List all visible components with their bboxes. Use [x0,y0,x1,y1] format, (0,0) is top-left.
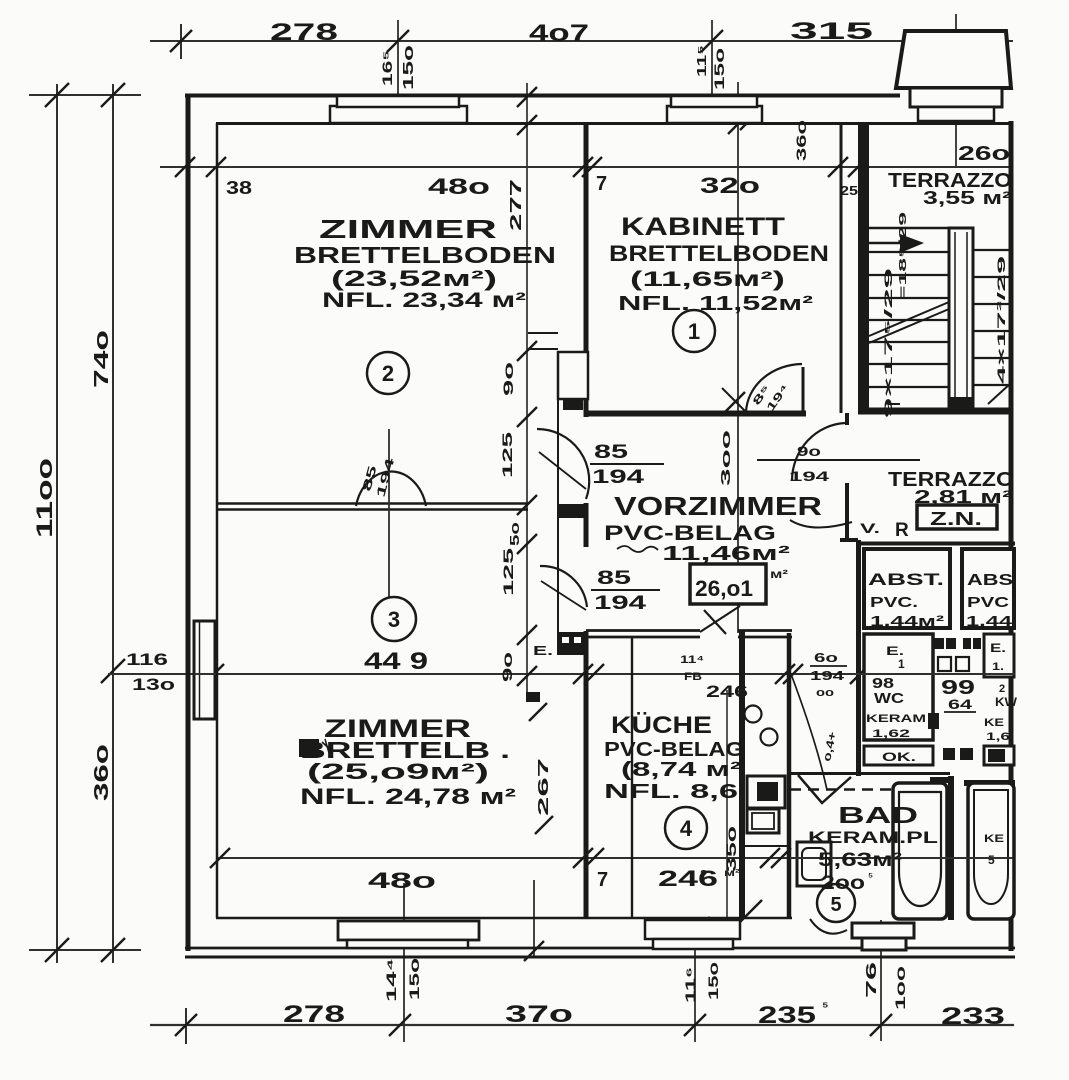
svg-text:PVC-BELAG: PVC-BELAG [604,522,776,545]
svg-text:KERAM.PL: KERAM.PL [808,828,938,847]
svg-text:1,44м²: 1,44м² [870,613,944,630]
svg-text:м²: м² [770,567,788,581]
door arc: kabinett (85/194) [746,364,802,412]
svg-text:5,63м²: 5,63м² [818,850,902,871]
svg-text:26,o1: 26,o1 [695,576,753,601]
room circle 5 [817,884,855,922]
wall: outer right [1009,121,1014,951]
dim line: interior chain y=167 [160,166,1013,168]
bathtub 2 (neighbour) [968,783,1014,919]
chimney base box [910,88,1002,107]
svg-text:2: 2 [700,867,707,882]
svg-text:E.: E. [886,644,904,658]
chimney (bottom) inner box [862,938,906,950]
wall: wc row top y=543.5 [858,542,1015,546]
wall: outer top [185,94,900,98]
washbasin bad [797,842,831,886]
svg-text:26o: 26o [958,143,1010,165]
dim line: top chain [150,40,1013,42]
bathtub 1 [893,783,947,919]
svg-text:11oo: 11oo [32,458,57,538]
svg-text:267: 267 [535,758,552,816]
tick: left inner bottom [85,949,141,951]
svg-text:R: R [895,520,909,541]
line over terrace door y=460 [757,459,920,461]
svg-text:NFL. 11,52м²: NFL. 11,52м² [618,293,814,315]
svg-text:35o: 35o [723,826,739,872]
window W3 (bottom, room4) outer [338,921,479,940]
wall: vorzimmer right x=847 lower [845,483,849,540]
box E2 with blob [984,746,1014,765]
chimney (top) trapezoid [896,31,1011,88]
window W3 inner step [347,940,468,948]
stair bottom equals mark [888,403,900,405]
svg-text:9o: 9o [499,652,515,682]
wall: kueche right x=742 [739,631,745,918]
bad top dashed line [790,788,944,791]
svg-text:64: 64 [948,696,972,712]
svg-text:oo: oo [816,687,834,699]
tick line: bottom window3 centre x=397 [403,883,405,1042]
svg-text:2: 2 [999,683,1005,695]
svg-text:VORZIMMER: VORZIMMER [614,491,822,521]
window W2 (top, kabinett) outer [667,106,762,123]
wall chunks above bad right [930,777,954,783]
door arc: bad small [810,919,847,934]
tick line: top chimney centre x=956 [955,14,957,167]
svg-text:235: 235 [758,1002,816,1029]
wall block 50 (between doors) [557,504,587,518]
svg-text:1,44: 1,44 [966,613,1013,630]
wall: kabinett right inner face x=841 [840,123,843,413]
stair treads right flight [973,249,1011,251]
svg-text:5: 5 [830,894,841,916]
dim line: interior chain y=674 [108,673,1015,675]
svg-text:1: 1 [688,319,700,344]
tick: bottom chain x=186 [185,1008,187,1044]
svg-text:1,6: 1,6 [986,731,1010,743]
wall: inner left line [216,123,219,918]
svg-text:BAD: BAD [838,802,918,828]
svg-text:1,62: 1,62 [872,728,910,740]
svg-text:5o: 5o [507,522,522,546]
tick: left inner middle [101,659,125,683]
stair diagonal right flight [988,383,1011,404]
svg-text:WC: WC [874,690,904,707]
svg-text:11⁴: 11⁴ [680,654,704,666]
svg-text:3oo: 3oo [718,430,733,486]
sink unit (black) [747,776,785,808]
slash at kueche window left [738,900,762,924]
wall: tub divider x=951 [948,776,954,920]
black blob wc right [928,713,939,729]
stair stringer foot (black) [950,397,972,412]
wall: bad top solid [790,772,950,775]
box OK [864,746,933,765]
white fixture boxes [938,657,951,671]
flue tick marks [322,742,331,750]
svg-text:194: 194 [594,593,647,614]
svg-text:FB: FB [684,671,702,683]
svg-text:15o: 15o [705,962,721,1000]
door arc: vorzimmer to stair landing (90/194) [792,423,845,480]
svg-text:3,55 м²: 3,55 м² [923,188,1011,208]
dim line: wall chain x=527 [526,83,528,695]
svg-text:BRETTELBODEN: BRETTELBODEN [609,241,829,266]
entrance door recess (left wall) [194,621,215,719]
wall: wc-column left x=858 [856,540,861,776]
svg-text:38: 38 [226,178,252,198]
dim chain y=858 overdraw bad/tubs [790,857,1013,859]
svg-text:4×17³/29: 4×17³/29 [996,256,1008,384]
tick line: top window1 centre x=398 [397,20,399,95]
dim line: interior chain y=858 [216,857,1015,859]
tick marks chain y=858 [210,848,230,868]
room circle 2 [367,352,409,394]
stair direction arrow [900,234,924,253]
svg-text:315: 315 [790,18,873,45]
svg-text:4o7: 4o7 [529,20,589,47]
wall: room2|room3 horizontal double line [216,502,528,505]
ticks on x=527 [517,87,537,107]
stair stringer channel [949,228,973,412]
svg-text:2oo: 2oo [821,873,865,894]
svg-text:(11,65м²): (11,65м²) [630,268,785,291]
svg-text:277: 277 [508,179,525,231]
svg-text:⁵: ⁵ [822,998,829,1014]
tick line: bottom window4 centre x=695 [694,921,696,1042]
wall: jog y=540 [840,538,858,542]
svg-text:5: 5 [988,853,995,867]
stair treads left flight [869,227,972,229]
svg-text:KERAM: KERAM [866,713,926,725]
wall niche (kabinett side) [528,332,558,334]
svg-text:246: 246 [658,866,718,891]
stove burner 1 [745,706,762,723]
wall: stairwell left (filled) [858,123,869,413]
svg-text:7: 7 [597,869,608,891]
kabinett door jamb [802,367,805,415]
door axis line x=389 [388,429,390,597]
tick: left outer bottom [29,949,85,951]
svg-text:9×17⁵/29: 9×17⁵/29 [883,268,895,418]
svg-text:NFL. 23,34 м²: NFL. 23,34 м² [322,289,526,312]
svg-text:32o: 32o [700,173,760,198]
svg-text:V.: V. [860,520,880,536]
stove burner 2 [761,729,778,746]
svg-text:194: 194 [592,467,645,488]
vorzimmer squiggle [617,546,658,552]
svg-text:15o: 15o [711,48,727,90]
vent V mark bad [798,775,851,803]
area box 26,01 [690,564,766,604]
tick line: top window2 centre x=712 [711,20,713,123]
flourish under VORZIMMER [790,520,852,528]
svg-text:125: 125 [499,432,515,478]
svg-text:76: 76 [863,962,880,998]
svg-text:ABST.: ABST. [868,570,944,589]
window W1 inner step [337,96,459,107]
kueche door X slashes [704,610,726,634]
wall cavity line x=558 segments [557,399,559,504]
svg-text:OK.: OK. [882,750,916,764]
stair walking-line diagonals [869,302,949,336]
dim line: left outer vertical (1100) [56,84,58,963]
wall: vorzimmer-left vertical x=586 middle [584,503,589,547]
svg-text:15o: 15o [406,958,422,1000]
tick marks interior chain y=167 [175,157,195,177]
room circle 3 [372,597,416,641]
wall: vorzimmer|kueche y=633 double [586,629,700,632]
svg-text:37o: 37o [505,1001,573,1028]
tick: top chain x=181 [180,24,182,59]
wall: outer bottom [185,947,1015,950]
svg-text:3: 3 [388,607,400,632]
svg-text:13o: 13o [132,675,175,694]
wall block hatched (E) [557,632,587,655]
svg-text:KABINETT: KABINETT [621,213,785,241]
svg-text:=18⁵/29: =18⁵/29 [898,211,909,300]
svg-text:1oo: 1oo [892,966,908,1010]
svg-text:194: 194 [810,668,845,683]
svg-text:44 9: 44 9 [364,648,428,675]
window W4 inner step [653,939,733,949]
wall: room2|kabinett vertical x=586 upper [584,123,589,417]
tick: left inner top [85,94,141,96]
tick line: bottom chimney x=881 [880,920,882,1041]
chimney (bottom) step box [852,923,914,938]
svg-text:11⁵: 11⁵ [694,45,709,77]
svg-text:233: 233 [941,1003,1005,1030]
svg-text:36o: 36o [91,744,113,801]
svg-text:ABS: ABS [967,572,1013,589]
svg-text:11⁶: 11⁶ [682,967,698,1003]
svg-text:85: 85 [594,442,629,463]
svg-text:Z.N.: Z.N. [930,509,982,529]
box E right [984,634,1014,677]
svg-text:74o: 74o [91,330,113,388]
dim line: bottom chain [150,1024,1014,1026]
svg-text:PVC: PVC [967,594,1009,611]
dim chain y=674 overdraw door recess [194,673,216,675]
svg-text:194: 194 [789,468,829,484]
svg-text:14⁴: 14⁴ [383,958,399,1002]
svg-text:KW: KW [995,695,1018,709]
svg-text:11,46м²: 11,46м² [662,543,791,565]
svg-text:48o: 48o [428,174,490,199]
svg-text:116: 116 [126,650,168,669]
tick line x=534 at bottom wall [533,880,535,958]
door arc: room2 to vorzimmer (85/194) [537,429,589,499]
svg-text:25: 25 [840,183,858,198]
slash at kueche window centre [684,917,710,943]
svg-text:BRETTELBODEN: BRETTELBODEN [294,242,556,268]
svg-text:85: 85 [597,568,632,589]
svg-text:⁵: ⁵ [868,871,873,883]
svg-text:PVC-BELAG: PVC-BELAG [604,739,744,761]
svg-text:15o: 15o [400,45,417,90]
window W2 inner step [671,96,757,107]
black squares row2 [943,748,955,760]
window W1 (top, room2) outer [330,106,467,123]
wall: vorzimmer right x=847 upper [845,413,849,425]
flue block room3 [299,739,319,757]
room box ABST 1 [864,549,950,628]
svg-text:KÜCHE: KÜCHE [611,712,712,739]
svg-text:(25,o9м²): (25,o9м²) [307,759,489,784]
window W4 (bottom, kueche) outer [645,920,740,939]
door arc: room2|room3 wall (85/194) [356,472,426,506]
axis line kabinett x=738 [737,82,739,633]
room circle 4 [665,807,707,849]
svg-text:48o: 48o [368,868,436,893]
svg-text:16⁵: 16⁵ [379,50,395,86]
counter shelf line [743,845,788,847]
svg-text:KE: KE [984,717,1004,729]
wall: outer left [186,95,191,951]
dim line: left inner vertical (740/360) [112,84,114,963]
dim chain y=674 overdraw right column [850,673,1015,675]
svg-text:36o: 36o [793,120,809,161]
svg-text:1.: 1. [992,661,1004,673]
svg-text:(8,74 м²: (8,74 м² [621,759,742,781]
box Z.N. [917,505,997,529]
wall: stair bottom y=411 [858,408,1013,415]
room box WC [864,634,933,740]
svg-text:278: 278 [270,19,338,46]
kitchen box 2 [747,809,779,833]
end blob x=527 [526,692,540,702]
wall: counter right x=789 [787,633,792,918]
tick: left outer top [29,94,85,96]
room circle 1 [673,310,715,352]
svg-text:125: 125 [500,548,516,596]
svg-text:1: 1 [898,657,905,671]
axis line kueche x=727 [726,690,728,918]
svg-text:E.: E. [533,643,553,658]
svg-text:KE: KE [984,833,1004,845]
kueche inner partition x=632 [631,636,633,918]
door arc: room3 to vorzimmer (85/194) [540,566,587,607]
svg-text:4: 4 [680,816,693,841]
black fixture squares row1 [934,638,944,649]
svg-text:NFL. 8,6: NFL. 8,6 [604,781,738,803]
svg-text:ZIMMER: ZIMMER [319,214,497,244]
svg-text:(23,52м²): (23,52м²) [331,266,497,291]
wall: inner bottom line [216,917,792,920]
svg-text:6o: 6o [814,650,838,665]
leader scribble kueche-bad [791,674,827,790]
svg-text:2: 2 [382,361,394,386]
svg-text:7: 7 [596,173,607,195]
tick marks chain y=674 [204,664,224,684]
svg-text:9o: 9o [797,443,821,459]
svg-text:PVC.: PVC. [870,594,918,611]
wall: kabinett bottom y=413 [586,411,806,417]
svg-text:NFL. 24,78 м²: NFL. 24,78 м² [300,784,516,809]
svg-text:9o: 9o [500,362,516,396]
svg-text:E.: E. [990,641,1006,655]
svg-text:278: 278 [283,1001,345,1028]
wall niche bottom dark block [563,399,583,410]
wall: inner top line [216,122,1013,125]
wall: kueche-left vertical x=586 lower [584,631,589,918]
room box ABST 2 (neighbour) [962,549,1014,628]
